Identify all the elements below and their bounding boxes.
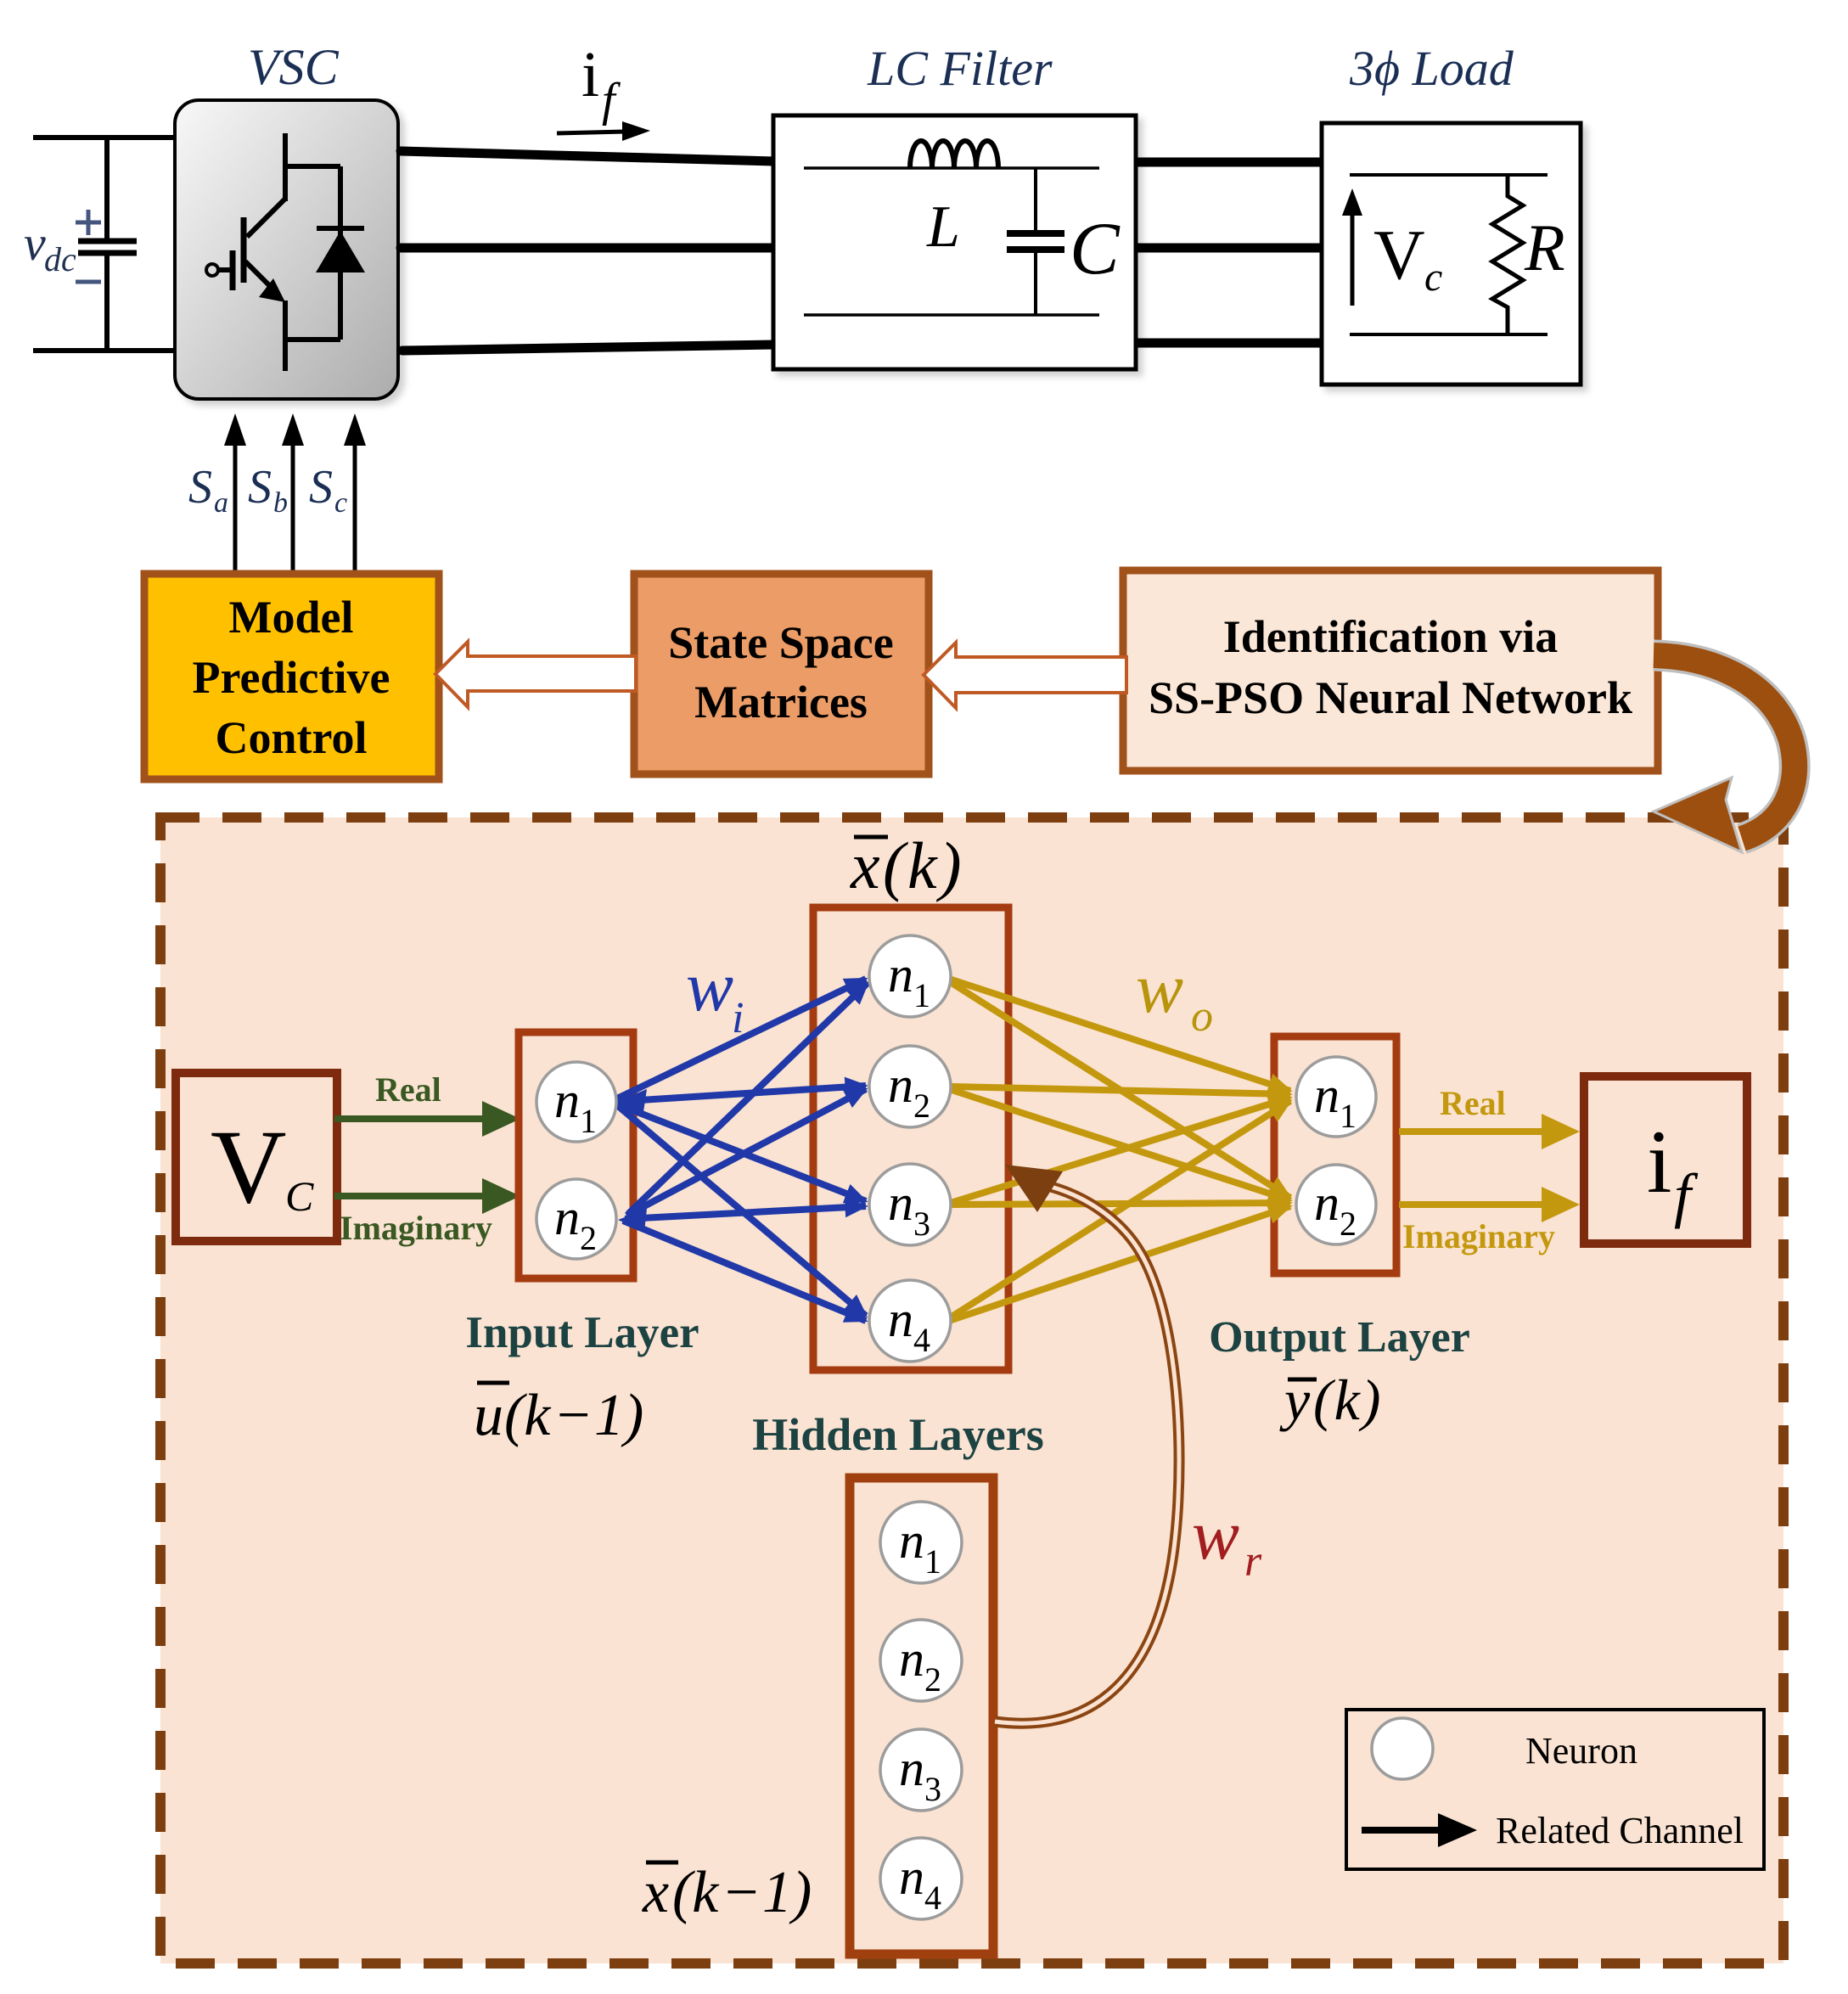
svg-text:1): 1): [594, 1383, 643, 1448]
svg-text:S: S: [248, 461, 272, 514]
svg-text:1): 1): [762, 1860, 812, 1925]
svg-text:Model: Model: [229, 592, 354, 643]
svg-text:SS-PSO Neural Network: SS-PSO Neural Network: [1149, 672, 1632, 723]
LC filter box: [773, 115, 1136, 369]
svg-text:S: S: [309, 461, 333, 514]
svg-text:Hidden Layers: Hidden Layers: [752, 1409, 1044, 1460]
inductor L: [910, 141, 998, 168]
svg-text:Neuron: Neuron: [1525, 1730, 1637, 1772]
input neuron n2: [536, 1179, 616, 1259]
svg-text:c: c: [334, 487, 347, 519]
context neuron n4: [880, 1838, 962, 1919]
svg-text:1: 1: [913, 976, 930, 1014]
minus sign: [76, 280, 101, 284]
context layer box: [850, 1478, 993, 1954]
output neuron n1: [1296, 1057, 1376, 1137]
load inner top wire: [1350, 173, 1547, 177]
input neuron n1: [536, 1062, 616, 1142]
hidden neuron n4: [869, 1280, 951, 1362]
phase wire a VSC to LC: [401, 151, 774, 161]
svg-text:n: n: [888, 1291, 913, 1347]
state space matrices box: [634, 574, 929, 774]
wo connections hidden to output: [949, 979, 1290, 1321]
resistor R: [1492, 175, 1523, 334]
svg-text:(k): (k): [883, 828, 964, 902]
svg-text:n: n: [554, 1189, 580, 1245]
real arrow green: [334, 1115, 486, 1122]
svg-text:n: n: [1314, 1067, 1340, 1123]
svg-text:VSC: VSC: [248, 39, 340, 95]
capacitor C: [1007, 168, 1064, 315]
plus sign: [76, 210, 101, 235]
if arrow: [557, 132, 626, 133]
svg-text:v: v: [24, 216, 46, 271]
legend neuron circle: [1372, 1718, 1433, 1779]
svg-text:x: x: [642, 1860, 669, 1925]
hidden neuron n3: [869, 1164, 951, 1245]
context neuron n1: [880, 1502, 962, 1583]
svg-text:n: n: [1314, 1175, 1340, 1231]
svg-text:C: C: [285, 1172, 314, 1220]
phase wire a LC to load: [1134, 158, 1324, 167]
load inner bottom wire: [1350, 333, 1547, 336]
svg-text:−: −: [725, 1860, 758, 1925]
wire dc bottom: [33, 348, 178, 353]
context neuron n2: [880, 1620, 962, 1701]
svg-text:LC Filter: LC Filter: [867, 41, 1053, 96]
svg-text:dc: dc: [44, 240, 76, 278]
svg-text:3: 3: [924, 1770, 941, 1808]
svg-text:r: r: [1244, 1537, 1262, 1586]
svg-text:3ϕ Load: 3ϕ Load: [1349, 41, 1514, 96]
hollow arrow SS to MPC: [435, 642, 636, 707]
svg-text:y: y: [1279, 1368, 1311, 1432]
phase wire c VSC to LC: [402, 345, 774, 351]
svg-text:3: 3: [913, 1205, 930, 1243]
svg-text:o: o: [1191, 992, 1213, 1041]
svg-text:c: c: [1424, 255, 1442, 300]
svg-text:C: C: [1070, 208, 1121, 290]
svg-text:2: 2: [1340, 1205, 1357, 1243]
hidden neuron n2: [869, 1046, 951, 1127]
svg-text:2: 2: [580, 1219, 597, 1257]
svg-text:Imaginary: Imaginary: [1402, 1217, 1555, 1255]
phase wire b LC to load: [1134, 244, 1324, 253]
diode D1: [317, 166, 364, 340]
Vc arrow: [1351, 210, 1355, 306]
svg-text:u: u: [474, 1383, 503, 1448]
output neuron n2: [1296, 1165, 1376, 1244]
svg-text:2: 2: [913, 1087, 930, 1125]
real arrow gold: [1399, 1128, 1545, 1135]
hidden layer box: [813, 907, 1008, 1370]
hidden neuron n1: [869, 935, 951, 1017]
curved arrow from identification to network box: [1654, 655, 1795, 839]
wr recurrent arc: [995, 1187, 1179, 1723]
svg-text:n: n: [899, 1849, 924, 1905]
svg-text:i: i: [581, 39, 599, 110]
wire dc top: [33, 135, 178, 140]
imaginary arrow green: [334, 1193, 486, 1199]
svg-text:n: n: [899, 1513, 924, 1569]
svg-text:n: n: [554, 1072, 580, 1128]
svg-text:i: i: [1647, 1112, 1671, 1211]
wr arrowhead: [1005, 1165, 1063, 1212]
svg-text:Predictive: Predictive: [193, 652, 390, 703]
svg-text:w: w: [1136, 949, 1183, 1028]
hollow arrow ID to SS: [924, 643, 1126, 708]
svg-text:1: 1: [1340, 1097, 1357, 1135]
phase wire b VSC to LC: [401, 244, 774, 253]
output layer box: [1274, 1036, 1396, 1273]
dashed network container box: [160, 817, 1783, 1963]
phase wire c LC to load: [1134, 339, 1324, 348]
svg-text:State Space: State Space: [668, 617, 893, 668]
identification box: [1123, 570, 1658, 771]
svg-text:w: w: [686, 947, 733, 1026]
svg-text:S: S: [188, 461, 212, 514]
Vc input box: [176, 1073, 337, 1241]
small reverse blue arrowheads into input neurons: [618, 1089, 647, 1112]
svg-text:L: L: [926, 194, 960, 260]
svg-text:4: 4: [913, 1321, 930, 1359]
inner wire bottom: [804, 313, 1099, 317]
svg-text:Input Layer: Input Layer: [465, 1308, 699, 1357]
svg-text:(k): (k): [1313, 1368, 1382, 1432]
svg-text:n: n: [888, 1175, 913, 1231]
svg-text:n: n: [888, 946, 913, 1003]
input layer box: [519, 1032, 633, 1278]
svg-text:Output Layer: Output Layer: [1209, 1313, 1470, 1362]
svg-text:1: 1: [924, 1542, 941, 1581]
svg-text:a: a: [214, 487, 228, 519]
inner wire top: [804, 166, 1099, 170]
imaginary arrow gold: [1399, 1201, 1545, 1208]
svg-text:b: b: [273, 487, 288, 519]
svg-text:2: 2: [924, 1660, 941, 1699]
capacitor vdc: [78, 135, 137, 353]
VSC box: [175, 100, 398, 399]
svg-text:Imaginary: Imaginary: [340, 1209, 492, 1247]
svg-text:(k: (k: [504, 1383, 552, 1448]
if output box: [1584, 1076, 1747, 1244]
svg-text:Control: Control: [215, 712, 367, 763]
model predictive control box: [144, 574, 439, 779]
svg-text:Real: Real: [375, 1070, 441, 1109]
gate signal arrows Sa Sb Sc: [235, 435, 355, 574]
IGBT Q1: [218, 133, 340, 371]
svg-text:R: R: [1524, 211, 1565, 284]
svg-text:n: n: [888, 1057, 913, 1113]
svg-text:−: −: [557, 1383, 590, 1448]
svg-text:Identification via: Identification via: [1223, 611, 1559, 662]
legend box: [1346, 1710, 1764, 1869]
svg-text:(k: (k: [672, 1860, 720, 1925]
svg-text:Matrices: Matrices: [694, 677, 868, 727]
svg-text:n: n: [899, 1740, 924, 1796]
context neuron n3: [880, 1729, 962, 1811]
svg-text:n: n: [899, 1631, 924, 1687]
svg-text:4: 4: [924, 1879, 941, 1917]
svg-text:1: 1: [580, 1102, 597, 1140]
svg-text:Real: Real: [1440, 1084, 1506, 1122]
svg-text:x: x: [850, 828, 880, 902]
3-phase load box: [1322, 123, 1581, 385]
svg-text:i: i: [732, 994, 744, 1042]
svg-text:V: V: [1373, 216, 1425, 295]
wi connections input to hidden: [614, 979, 868, 1321]
svg-text:Related Channel: Related Channel: [1496, 1810, 1744, 1851]
legend arrow: [1362, 1827, 1443, 1834]
svg-text:V: V: [211, 1109, 287, 1225]
svg-text:w: w: [1192, 1496, 1239, 1575]
